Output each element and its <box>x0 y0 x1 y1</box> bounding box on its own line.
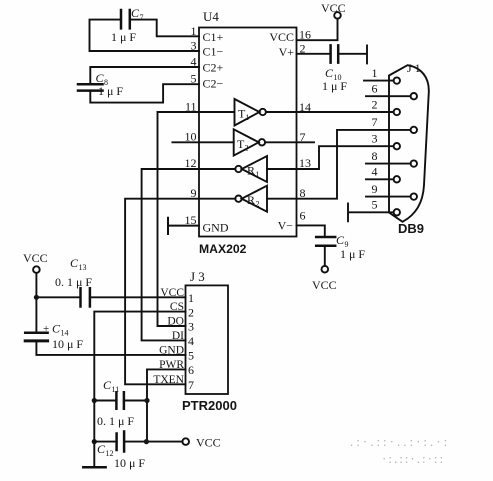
DB9 pin 8 number <box>372 149 378 163</box>
J3 pin number 1 <box>188 291 194 305</box>
svg-text:0. 1 μ F: 0. 1 μ F <box>97 414 134 428</box>
wire pin15 GND stub with bar <box>168 218 199 234</box>
svg-text:C2−: C2− <box>203 77 224 91</box>
VCC terminal right <box>182 436 220 450</box>
svg-text:GND: GND <box>203 221 229 235</box>
J1 reference label <box>407 61 421 75</box>
wire C8 to pin5 C2- <box>90 84 199 102</box>
svg-text:DI: DI <box>172 330 184 342</box>
svg-text:MAX202: MAX202 <box>199 242 247 256</box>
pin number 7 <box>300 130 306 144</box>
MAX202 part label <box>199 242 247 256</box>
wire pin6 V- to C9 <box>297 225 325 237</box>
svg-text:DO: DO <box>167 316 184 328</box>
wire R1 in pin13 to DB9 pin3 <box>267 146 394 169</box>
J3 label VCC <box>160 287 184 299</box>
capacitor C13 <box>81 288 90 306</box>
wire T2 out pin7 stub <box>265 141 314 143</box>
svg-text:R: R <box>247 193 255 207</box>
C9 value label <box>336 233 365 261</box>
svg-text:6: 6 <box>300 209 306 223</box>
node ground rail / C12 left junction <box>92 439 97 444</box>
J3 label PWR <box>159 359 184 371</box>
DB9 pin 3 <box>394 143 400 149</box>
wire C12 left <box>94 441 116 443</box>
svg-text:·:.::·.:·::: ·:.::·.:·:: <box>382 451 445 466</box>
inverter R2 <box>199 186 267 212</box>
svg-text:1: 1 <box>256 170 260 179</box>
IC label GND <box>203 221 229 235</box>
IC label V- <box>278 219 294 233</box>
C10 value label <box>322 66 347 93</box>
connector J3 body <box>186 285 229 394</box>
C7 value label <box>111 6 144 44</box>
VCC symbol top <box>321 1 346 19</box>
pin number 4 <box>191 55 197 69</box>
IC label VCC <box>269 30 294 44</box>
svg-text:TXEN: TXEN <box>153 374 184 386</box>
J3 pin number 4 <box>188 334 194 348</box>
pin number 2 <box>300 41 306 55</box>
svg-text:0. 1 μ F: 0. 1 μ F <box>55 275 92 289</box>
svg-text:4: 4 <box>372 165 378 179</box>
capacitor C7 <box>121 10 130 28</box>
svg-text:V−: V− <box>278 219 294 233</box>
DB9 pin 2 number <box>372 98 378 112</box>
svg-text:GND: GND <box>159 344 184 356</box>
IC label C1- <box>203 45 224 59</box>
svg-text:8: 8 <box>372 149 378 163</box>
DB9 pin 1 number <box>372 66 378 80</box>
svg-text:VCC: VCC <box>312 278 337 292</box>
node C12 right / PWR rail junction <box>144 439 149 444</box>
svg-text:11: 11 <box>112 385 120 394</box>
svg-text:VCC: VCC <box>321 1 346 15</box>
svg-text:4: 4 <box>188 334 194 348</box>
IC label C2+ <box>203 61 224 75</box>
capacitor C9 <box>316 237 335 246</box>
svg-text:12: 12 <box>185 156 197 170</box>
ground <box>83 466 105 469</box>
svg-text:3: 3 <box>372 132 378 146</box>
wire node to C13 <box>36 296 80 298</box>
wire C11 right <box>124 400 147 402</box>
wire VCC down to node <box>35 273 37 333</box>
PTR2000 part label <box>182 398 237 413</box>
svg-text:12: 12 <box>106 449 114 458</box>
svg-text:+: + <box>43 323 49 335</box>
DB9 part label <box>398 221 424 236</box>
J3 pin number 6 <box>188 363 194 377</box>
wire C13 to J3 VCC <box>90 296 186 298</box>
DB9 pin 7 number <box>372 115 378 129</box>
svg-text:DB9: DB9 <box>398 221 424 236</box>
DB9 pin 4 <box>366 176 400 182</box>
J3 label CS <box>170 301 184 313</box>
svg-text:5: 5 <box>372 198 378 212</box>
node VCC/C13/C14 junction <box>34 295 39 300</box>
svg-text:J 3: J 3 <box>190 269 205 284</box>
J3 pin number 5 <box>188 349 194 363</box>
pin number 15 <box>185 213 197 227</box>
svg-text:PTR2000: PTR2000 <box>182 398 237 413</box>
wire T1 out pin14 to DB9 pin2 <box>266 111 394 113</box>
wire C10 to terminator <box>338 45 367 63</box>
svg-text:V+: V+ <box>279 45 295 59</box>
C14 value label <box>43 322 83 352</box>
svg-text:6: 6 <box>372 82 378 96</box>
wire pin11 to J3 DO <box>158 112 186 326</box>
pin number 13 <box>299 156 311 170</box>
pin number 9 <box>191 186 197 200</box>
capacitor C10 <box>331 45 339 62</box>
svg-text:10 μ F: 10 μ F <box>52 337 83 351</box>
J3 label DI <box>172 330 184 342</box>
J3 pin number 2 <box>188 305 194 319</box>
R1 label <box>247 164 260 180</box>
VCC symbol left <box>23 251 48 273</box>
node PWR / C11 right junction <box>144 398 149 403</box>
pin number 14 <box>299 100 311 114</box>
svg-text:7: 7 <box>188 378 194 392</box>
svg-text:1: 1 <box>188 291 194 305</box>
svg-text:10 μ F: 10 μ F <box>114 456 145 470</box>
svg-text:7: 7 <box>372 115 378 129</box>
wire J3 CS down to ground rail <box>94 312 185 468</box>
DB9 pin 3 number <box>372 132 378 146</box>
IC label V+ <box>279 45 295 59</box>
inverter R1 <box>199 156 267 182</box>
svg-text:J 1: J 1 <box>407 61 421 75</box>
wire pin9 to J3 TXEN <box>125 199 199 385</box>
J3 label TXEN <box>153 374 184 386</box>
U4 reference label <box>203 9 219 24</box>
DB9 pin 5 with bar terminator <box>348 204 400 222</box>
T1 label <box>238 107 250 123</box>
DB9 pin 8 <box>366 160 417 166</box>
svg-text:3: 3 <box>191 39 197 53</box>
op-amp U4 MAX202 IC body <box>199 28 297 237</box>
svg-text:9: 9 <box>372 182 378 196</box>
wire pin2 V+ to C10 <box>297 53 331 55</box>
connector J1 DB9 outline <box>389 65 429 222</box>
svg-text:1 μ F: 1 μ F <box>340 247 365 261</box>
pin number 3 <box>191 39 197 53</box>
capacitor C12 <box>117 432 125 452</box>
wire VCC to pin16 <box>297 19 338 41</box>
svg-text:R: R <box>247 164 255 178</box>
DB9 pin 2 <box>394 109 400 115</box>
buffer T1 <box>158 99 266 126</box>
C11 value label <box>97 378 134 428</box>
svg-text:3: 3 <box>188 320 194 334</box>
capacitor C14 polarized <box>25 333 47 341</box>
J3 reference label <box>190 269 205 284</box>
pin number 6 <box>300 209 306 223</box>
svg-text:1: 1 <box>246 113 250 122</box>
svg-text:2: 2 <box>188 305 194 319</box>
capacitor C11 <box>116 392 124 408</box>
wire C9 to VCC terminal <box>324 246 326 266</box>
pin number 16 <box>299 28 311 42</box>
wire pin12 to J3 DI <box>142 169 199 340</box>
IC label C2- <box>203 77 224 91</box>
svg-text:1: 1 <box>372 66 378 80</box>
J3 pin number 7 <box>188 378 194 392</box>
svg-text:C1−: C1− <box>203 45 224 59</box>
VCC terminal bottom of C9 <box>312 266 337 292</box>
pin number 5 <box>191 72 197 86</box>
T2 label <box>237 137 249 153</box>
svg-text:1: 1 <box>191 24 197 38</box>
DB9 pin 5 number <box>372 198 378 212</box>
svg-text:2: 2 <box>245 143 249 152</box>
IC label C1+ <box>203 30 224 44</box>
wire pin1 C1+ to C7 <box>130 20 199 37</box>
DB9 pin 9 <box>366 193 417 199</box>
C12 value label <box>97 442 145 470</box>
svg-text:2: 2 <box>372 98 378 112</box>
wire C11 left <box>94 400 116 402</box>
svg-text:2: 2 <box>256 200 260 209</box>
buffer T2 <box>172 129 265 155</box>
DB9 pin 4 number <box>372 165 378 179</box>
svg-text:1 μ F: 1 μ F <box>111 30 136 44</box>
J3 pin number 3 <box>188 320 194 334</box>
R2 label <box>247 193 260 209</box>
svg-text:6: 6 <box>188 363 194 377</box>
DB9 pin 9 number <box>372 182 378 196</box>
svg-text:4: 4 <box>191 55 197 69</box>
svg-text:.:·.::·..:·:.·:: .:·.::·..:·:.·: <box>350 434 450 449</box>
J3 label GND <box>159 344 184 356</box>
DB9 pin 6 number <box>372 82 378 96</box>
pin number 11 <box>185 100 197 114</box>
svg-text:5: 5 <box>191 72 197 86</box>
DB9 pin 1 <box>364 77 400 83</box>
svg-text:U4: U4 <box>203 9 219 24</box>
svg-text:VCC: VCC <box>23 251 48 265</box>
svg-text:C2+: C2+ <box>203 61 224 75</box>
wire R2 in pin8 to DB9 pin7 <box>267 130 411 199</box>
wire C12 right to VCC terminal <box>124 441 182 443</box>
svg-text:VCC: VCC <box>269 30 294 44</box>
DB9 pin 6 <box>366 93 417 99</box>
wire pin4 C2+ to C8 <box>90 67 199 84</box>
pin number 8 <box>300 186 306 200</box>
C8 value label <box>96 71 124 98</box>
wire J3 PWR down <box>147 369 186 441</box>
node CS rail / C11 left junction <box>92 398 97 403</box>
pin number 1 <box>191 24 197 38</box>
watermark <box>350 434 450 466</box>
svg-text:VCC: VCC <box>160 287 184 299</box>
pin number 12 <box>185 156 197 170</box>
svg-text:13: 13 <box>79 263 87 272</box>
pin number 10 <box>185 130 197 144</box>
svg-text:C1+: C1+ <box>203 30 224 44</box>
svg-text:VCC: VCC <box>196 436 221 450</box>
capacitor C8 <box>78 84 103 90</box>
svg-text:5: 5 <box>188 349 194 363</box>
svg-text:1 μ F: 1 μ F <box>98 84 123 98</box>
wire C14 to GND row <box>36 341 185 355</box>
J3 label DO <box>167 316 184 328</box>
C13 value label <box>55 256 92 289</box>
svg-text:1 μ F: 1 μ F <box>322 79 347 93</box>
svg-text:7: 7 <box>140 13 144 22</box>
wire C7 to pin3 C1- <box>90 20 200 51</box>
DB9 pin 7 <box>411 127 417 133</box>
